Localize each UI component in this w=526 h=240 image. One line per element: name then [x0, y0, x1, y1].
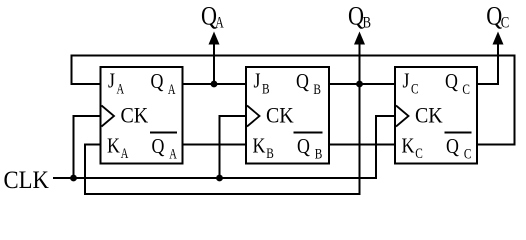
svg-text:B: B [266, 145, 274, 161]
svg-text:Q: Q [296, 71, 309, 94]
svg-text:A: A [169, 146, 177, 162]
svg-text:K: K [401, 135, 414, 158]
svg-text:Q: Q [152, 136, 165, 159]
svg-text:CK: CK [415, 104, 443, 128]
svg-text:Q: Q [445, 71, 458, 94]
svg-text:C: C [501, 14, 510, 31]
svg-text:C: C [462, 81, 470, 97]
svg-text:K: K [107, 135, 120, 158]
svg-text:A: A [121, 145, 129, 161]
svg-text:Q: Q [297, 136, 310, 159]
svg-text:C: C [411, 81, 419, 97]
svg-text:J: J [254, 70, 261, 93]
svg-text:C: C [415, 145, 423, 161]
svg-text:B: B [315, 146, 323, 162]
svg-text:CK: CK [266, 104, 294, 128]
svg-text:A: A [168, 81, 176, 97]
svg-text:B: B [363, 14, 372, 31]
svg-text:Q: Q [446, 136, 459, 159]
svg-text:Q: Q [150, 71, 163, 94]
svg-text:CK: CK [120, 104, 148, 128]
svg-text:J: J [108, 70, 115, 93]
svg-text:K: K [252, 135, 265, 158]
svg-text:C: C [464, 146, 472, 162]
svg-text:B: B [313, 81, 321, 97]
svg-text:J: J [403, 70, 410, 93]
svg-text:B: B [262, 81, 270, 97]
svg-text:A: A [117, 81, 125, 97]
svg-text:A: A [215, 14, 224, 31]
svg-text:CLK: CLK [4, 166, 50, 194]
